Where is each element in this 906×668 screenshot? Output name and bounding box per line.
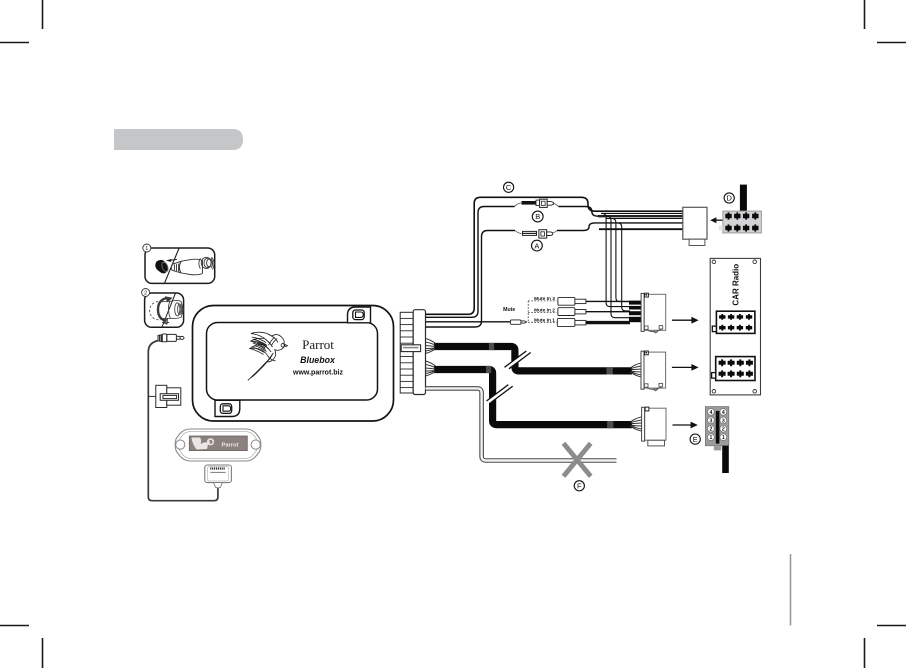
display unit connector — [205, 465, 232, 488]
mute-in 1 spade terminal — [557, 319, 586, 327]
microphone jack plug icon — [158, 334, 184, 342]
svg-text:3: 3 — [709, 418, 712, 424]
main harness connector comb — [400, 312, 413, 393]
label A — [532, 240, 543, 251]
svg-text:B: B — [535, 212, 540, 221]
line-out cable (gray, unused) — [426, 388, 617, 460]
speaker cable fray at connector — [426, 361, 436, 376]
radio ISO socket 1 — [712, 311, 755, 333]
speaker cable fray at plug3 — [631, 417, 642, 431]
label F — [574, 481, 584, 491]
svg-text:Parrot: Parrot — [221, 443, 238, 449]
bundle lines into connector D — [601, 212, 683, 214]
display unit side screws — [176, 440, 185, 449]
drop wire v3 to line-in plug — [612, 219, 630, 302]
power cable fray at connector — [426, 339, 436, 354]
crop mark top-right — [865, 0, 906, 43]
speaker cable (thick, to plug 3) — [434, 370, 632, 425]
crop mark top-left — [0, 0, 43, 43]
main harness connector latch — [401, 345, 420, 352]
svg-text:Mute In 3: Mute In 3 — [534, 296, 555, 302]
item 1 holder cylinder — [171, 257, 214, 275]
svg-text:Bluebox: Bluebox — [300, 355, 336, 365]
svg-text:Mute: Mute — [503, 307, 515, 313]
drop wire v2 to line-in plug — [607, 216, 630, 318]
arrow plug3 to speaker block — [673, 422, 698, 429]
svg-text:www.parrot.biz: www.parrot.biz — [292, 370, 343, 377]
power plug 2 — [641, 351, 666, 391]
Bluebox bottom-left screw tab — [215, 400, 240, 416]
cut slash on speaker cable — [487, 385, 513, 403]
label E — [690, 434, 700, 444]
item 1 badge — [143, 244, 151, 252]
X cross-out mark — [564, 443, 591, 476]
svg-text:1: 1 — [709, 435, 712, 441]
speaker cable collar 1 — [486, 366, 491, 373]
section header gray bar — [114, 129, 243, 150]
speaker cable collar 2 — [607, 421, 613, 428]
wire A inline connector — [515, 230, 557, 238]
wire B (with inline bullet connector) — [426, 207, 515, 318]
mute-in 3 spade terminal — [558, 297, 586, 305]
item 2 cylinder — [162, 300, 183, 318]
line-in plug wire stubs — [629, 303, 642, 320]
svg-text:2: 2 — [144, 291, 147, 297]
power cable collar 1 — [489, 343, 494, 350]
svg-text:2: 2 — [722, 427, 725, 433]
speaker terminal block E — [705, 407, 728, 473]
item 2 rotation arrow — [158, 298, 167, 321]
ISO adapter plug D — [683, 207, 707, 245]
car ISO socket D (gray) — [719, 211, 762, 233]
microphone connector icon — [148, 385, 181, 407]
svg-text:D: D — [726, 194, 732, 203]
label B — [532, 211, 543, 222]
radio ISO socket 2 — [712, 357, 755, 381]
screen parrot logo — [192, 438, 209, 450]
svg-text:Mute In 2: Mute In 2 — [534, 307, 555, 313]
item 1 diagonal separator — [165, 248, 180, 283]
wire B inline connector — [515, 199, 559, 207]
crop mark bottom-left — [0, 626, 43, 668]
mute dashed bracket — [528, 301, 556, 322]
svg-text:1: 1 — [722, 435, 725, 441]
speaker plug 3 — [642, 407, 666, 446]
mute-in 2 spade terminal — [558, 308, 586, 316]
CAR Radio panel — [710, 258, 760, 395]
svg-text:4: 4 — [722, 410, 725, 416]
svg-text:2: 2 — [709, 427, 712, 433]
car harness cable (black bar) into D socket — [740, 185, 747, 212]
svg-text:3: 3 — [722, 418, 725, 424]
Bluebox top-right screw tab — [348, 307, 371, 323]
mute bullet connector — [510, 320, 526, 324]
svg-text:Parrot: Parrot — [302, 337, 334, 352]
item 2 mic housing dashed circle — [150, 302, 162, 320]
drop wire v4 to line-in plug — [618, 223, 630, 311]
wire A (with inline bullet connector) — [426, 231, 516, 328]
arrow into plug D — [710, 217, 724, 223]
item 2 thumbnail frame (rotate microphone) — [145, 293, 184, 327]
item 2 diagonal separator — [162, 293, 175, 327]
Bluebox inner face — [207, 323, 378, 401]
arrow plug1 to radio — [672, 317, 699, 324]
svg-text:1: 1 — [145, 246, 148, 252]
mute wire — [426, 321, 511, 323]
svg-text:Mute In 1: Mute In 1 — [534, 317, 555, 323]
wire C (yellow line-in loop) — [426, 197, 683, 314]
crop mark bottom-right — [865, 626, 906, 668]
label D — [724, 193, 734, 203]
line-in plug 1 — [641, 293, 666, 333]
cut slash on power cable — [505, 351, 531, 369]
svg-text:E: E — [693, 435, 698, 444]
svg-text:4: 4 — [709, 410, 712, 416]
power cable collar 2 — [607, 367, 613, 374]
item 2 badge — [142, 289, 150, 297]
microphone cable to display wire — [148, 341, 218, 501]
Parrot display unit body — [175, 429, 261, 461]
power cable (thick, to plug 2) — [434, 347, 632, 371]
arrow plug2 to radio — [672, 364, 699, 371]
label C — [504, 182, 514, 192]
item 1 thumbnail frame (microphone into holder) — [145, 248, 215, 283]
drop wire v1 to line-in plug — [602, 213, 630, 306]
panel screws — [712, 260, 756, 393]
svg-text:F: F — [577, 482, 582, 491]
Bluebox outer case — [193, 306, 394, 422]
Bluebox Parrot bird logo — [248, 332, 288, 380]
page edge gray line — [790, 554, 792, 626]
svg-text:A: A — [534, 241, 539, 250]
main harness connector body — [413, 310, 425, 395]
svg-text:CAR Radio: CAR Radio — [731, 264, 740, 306]
display unit screen — [189, 436, 247, 451]
item 1 insert arrow — [171, 258, 177, 261]
svg-text:C: C — [506, 183, 512, 192]
power cable fray at plug2 — [631, 363, 642, 377]
item 1 microphone blob — [155, 260, 168, 274]
